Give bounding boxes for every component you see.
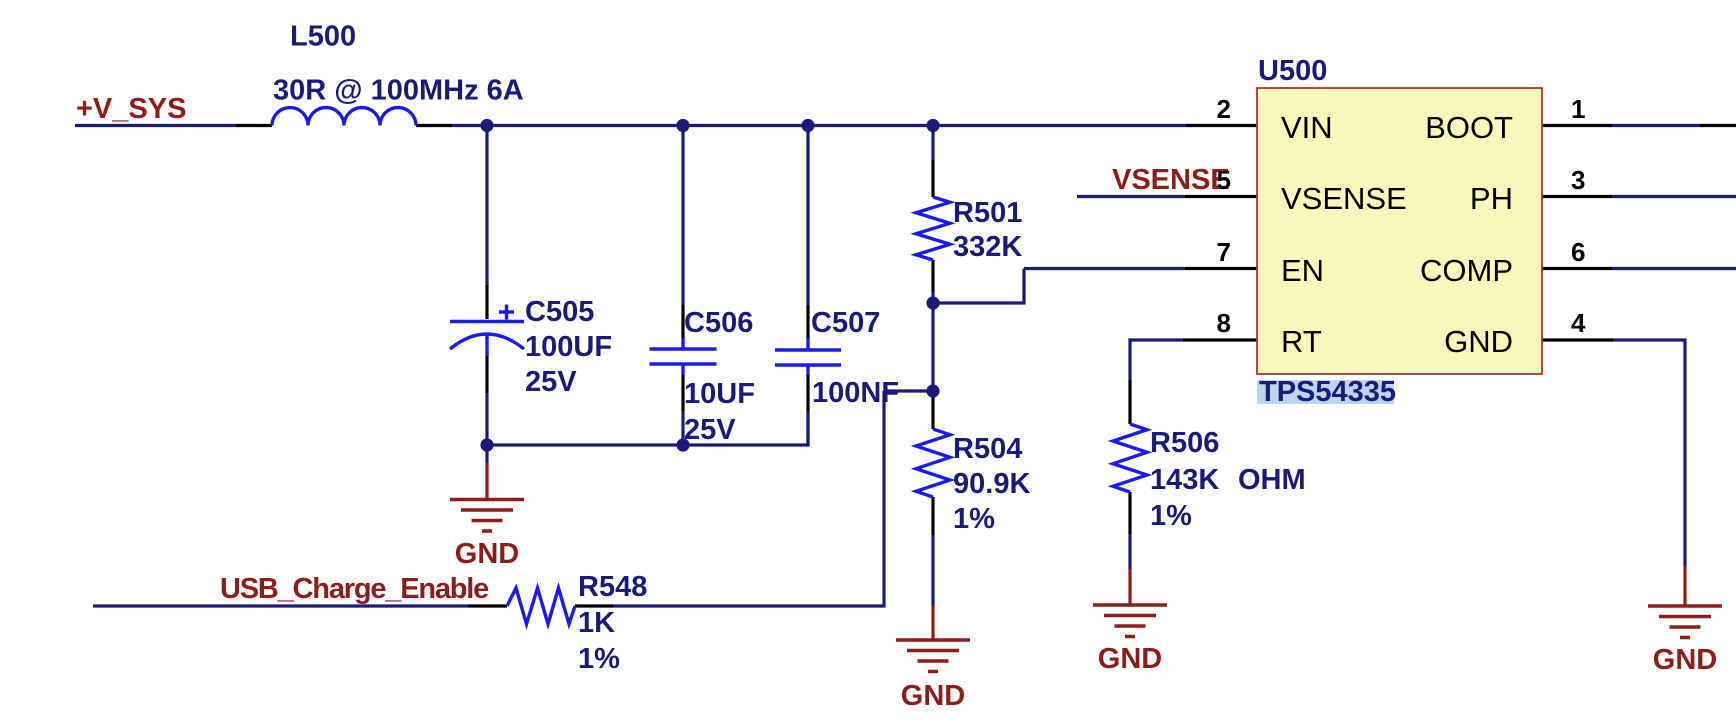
svg-text:4: 4 [1571, 308, 1586, 338]
svg-text:90.9K: 90.9K [953, 468, 1030, 500]
svg-text:R501: R501 [953, 197, 1022, 229]
svg-text:C507: C507 [811, 307, 880, 339]
svg-text:U500: U500 [1258, 55, 1327, 87]
svg-text:L500: L500 [290, 21, 356, 53]
svg-text:332K: 332K [953, 231, 1022, 263]
svg-text:25V: 25V [684, 414, 736, 446]
svg-text:GND: GND [901, 680, 965, 712]
svg-text:10UF: 10UF [684, 378, 755, 410]
svg-text:R548: R548 [578, 571, 647, 603]
svg-text:30R @ 100MHz 6A: 30R @ 100MHz 6A [273, 75, 524, 107]
svg-text:5: 5 [1217, 165, 1231, 195]
svg-text:GND: GND [1444, 324, 1513, 359]
svg-text:7: 7 [1217, 237, 1231, 267]
svg-text:+V_SYS: +V_SYS [76, 93, 186, 125]
svg-text:8: 8 [1217, 308, 1231, 338]
svg-text:C505: C505 [525, 296, 594, 328]
svg-text:2: 2 [1217, 94, 1231, 124]
svg-text:RT: RT [1281, 324, 1322, 359]
svg-text:R504: R504 [953, 433, 1022, 465]
svg-text:GND: GND [1653, 644, 1717, 676]
svg-text:3: 3 [1571, 165, 1585, 195]
svg-text:1K: 1K [578, 607, 615, 639]
svg-text:25V: 25V [525, 366, 577, 398]
svg-text:100NF: 100NF [812, 377, 899, 409]
svg-text:1%: 1% [578, 643, 620, 675]
svg-text:C506: C506 [684, 307, 753, 339]
svg-text:1: 1 [1571, 94, 1585, 124]
svg-text:USB_Charge_Enable: USB_Charge_Enable [220, 573, 489, 605]
svg-text:1%: 1% [953, 503, 995, 535]
svg-text:OHM: OHM [1238, 464, 1306, 496]
svg-text:GND: GND [455, 538, 519, 570]
svg-text:143K: 143K [1150, 464, 1219, 496]
svg-text:GND: GND [1098, 643, 1162, 675]
svg-text:VSENSE: VSENSE [1281, 181, 1407, 216]
svg-text:TPS54335: TPS54335 [1259, 376, 1396, 408]
svg-text:BOOT: BOOT [1425, 110, 1513, 145]
svg-text:1%: 1% [1150, 500, 1192, 532]
svg-text:COMP: COMP [1420, 253, 1513, 288]
svg-text:EN: EN [1281, 253, 1324, 288]
svg-text:VSENSE: VSENSE [1112, 164, 1230, 196]
svg-text:PH: PH [1470, 181, 1513, 216]
svg-text:100UF: 100UF [525, 331, 612, 363]
svg-text:R506: R506 [1150, 427, 1219, 459]
svg-text:VIN: VIN [1281, 110, 1333, 145]
svg-text:6: 6 [1571, 237, 1585, 267]
